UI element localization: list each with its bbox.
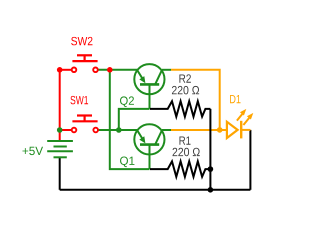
label D1 — [230, 95, 241, 103]
switch SW1 — [72, 116, 98, 133]
label R2 value 220 ohm — [172, 86, 199, 94]
wire red stub to SW1 — [60, 129, 72, 131]
label Q2 — [120, 96, 134, 107]
switch SW2 — [72, 55, 98, 72]
label R1 value 220 ohm — [173, 148, 200, 156]
wire green SW2-out down to Q1 base — [110, 70, 150, 169]
junction dot vertical to ground rail — [208, 187, 214, 193]
wire green Q2 collector stub — [162, 69, 171, 71]
transistor Q1 — [134, 124, 164, 169]
LED D1 — [227, 109, 253, 138]
wire green SW2 output — [98, 69, 138, 71]
junction dot battery positive — [57, 127, 63, 133]
label +5V — [22, 147, 43, 155]
wire green Q1 collector stub — [162, 129, 171, 131]
wire green SW1-out up to Q2 base — [119, 109, 150, 130]
label SW1 — [70, 96, 88, 104]
wire red left rail — [59, 70, 61, 141]
junction dot SW2 rail — [57, 67, 63, 73]
resistor R2 — [150, 101, 210, 116]
label R2 — [179, 74, 190, 82]
resistor R1 — [150, 161, 210, 176]
label SW2 — [71, 37, 92, 45]
wire black LED cathode down — [249, 130, 251, 190]
transistor Q2 — [134, 64, 164, 109]
wire black ground rail — [60, 189, 251, 191]
junction dot SW1 output node — [116, 127, 122, 133]
wire black resistor common vertical — [209, 109, 211, 190]
wire orange Q2 collector to LED node — [171, 70, 220, 130]
junction dot SW2 output node — [107, 67, 113, 73]
junction dot LED anode node — [217, 127, 223, 133]
battery BT1 +5V — [47, 141, 73, 157]
wire green SW1 output — [98, 129, 137, 131]
label Q1 — [120, 157, 134, 168]
wire red stub to SW2 — [60, 69, 72, 71]
label R1 — [179, 136, 190, 144]
wire black battery negative down — [59, 157, 61, 190]
junction dot R1 to vertical — [208, 166, 214, 172]
wire orange Q1 collector to LED anode — [171, 129, 227, 131]
